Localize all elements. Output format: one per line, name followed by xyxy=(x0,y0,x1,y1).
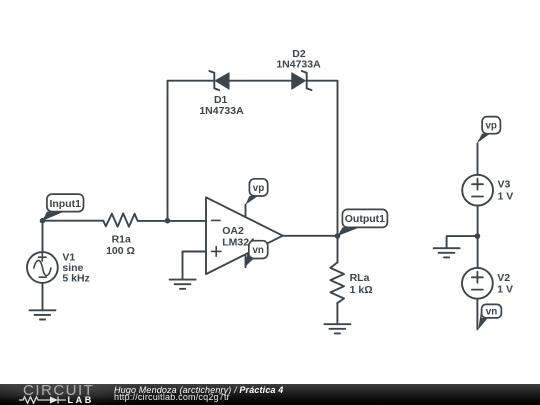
svg-text:1N4733A: 1N4733A xyxy=(276,58,321,70)
svg-text:5 kHz: 5 kHz xyxy=(62,273,89,285)
svg-text:Input1: Input1 xyxy=(49,198,81,210)
svg-text:vp: vp xyxy=(485,121,496,132)
svg-text:RLa: RLa xyxy=(350,272,370,284)
svg-text:V2: V2 xyxy=(497,272,510,284)
svg-text:1N4733A: 1N4733A xyxy=(199,105,244,117)
svg-text:vn: vn xyxy=(486,306,497,317)
svg-text:vp: vp xyxy=(253,183,264,194)
svg-text:1 V: 1 V xyxy=(497,283,513,295)
svg-text:1 kΩ: 1 kΩ xyxy=(350,284,373,296)
svg-text:1 V: 1 V xyxy=(498,191,514,203)
svg-text:R1a: R1a xyxy=(112,234,131,246)
svg-text:V3: V3 xyxy=(498,179,511,191)
svg-text:Output1: Output1 xyxy=(345,213,385,225)
svg-text:vn: vn xyxy=(252,245,263,256)
svg-text:OA2: OA2 xyxy=(222,225,244,237)
svg-text:100 Ω: 100 Ω xyxy=(106,245,135,257)
